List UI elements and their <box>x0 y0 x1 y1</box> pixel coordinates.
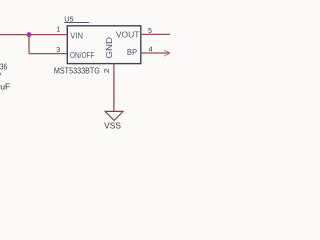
svg-text:VSS: VSS <box>104 122 121 131</box>
svg-text:ON/OFF: ON/OFF <box>70 51 95 60</box>
wire junction drop to ON/OFF <box>28 35 30 54</box>
svg-text:VOUT: VOUT <box>116 30 140 39</box>
svg-text:36: 36 <box>0 63 7 72</box>
ground symbol VSS triangle <box>105 111 123 120</box>
svg-text:VIN: VIN <box>70 32 83 41</box>
wire VIN net (left rail to pin 1) <box>0 34 67 36</box>
wire BP from pin 4 <box>141 52 170 54</box>
reference designator U5 <box>64 14 89 23</box>
svg-text:2: 2 <box>104 68 111 73</box>
junction dot on VIN net <box>27 32 32 37</box>
svg-text:BP: BP <box>127 48 137 57</box>
svg-text:3: 3 <box>56 47 60 54</box>
IC U5 body <box>67 26 141 64</box>
svg-text:uF: uF <box>0 81 10 91</box>
wire GND pin 2 to VSS <box>113 64 115 112</box>
wire VOUT from pin 5 <box>141 33 170 35</box>
svg-text:MST5333BTG: MST5333BTG <box>54 66 100 75</box>
arrowhead on BP wire <box>164 50 170 56</box>
capacitor symbol edge fragment <box>0 73 2 76</box>
wire to pin 3 ON/OFF <box>29 53 67 55</box>
svg-text:1: 1 <box>56 27 60 34</box>
svg-text:GND: GND <box>105 37 114 59</box>
